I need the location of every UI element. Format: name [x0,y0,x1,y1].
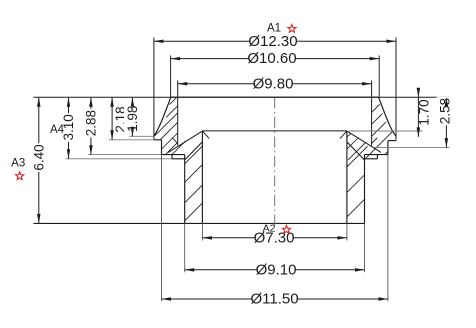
dimension O9.80 [178,75,372,94]
star A3 [16,172,24,180]
wire top reference extension line [34,96,451,98]
O10.60 right extension line [378,56,380,98]
dimension 2.18 [110,97,128,140]
svg-text:6.40: 6.40 [31,144,46,170]
dimension 1.98 [124,97,141,136]
extension line O9.10 right [364,223,366,272]
svg-text:Ø9.80: Ø9.80 [253,75,294,92]
svg-text:A1: A1 [267,22,281,34]
extension line 1.98 [129,135,154,137]
right section hatching [347,104,392,217]
left flange fillet [154,97,171,136]
star A2 [282,225,290,233]
extension line 2.58 [374,147,450,149]
svg-text:A2: A2 [263,222,276,234]
dimension O9.10 [185,261,365,280]
dimension O11.50 [162,290,388,309]
svg-text:A4: A4 [50,124,65,136]
extension line O7.30 left [201,223,203,240]
left cone inner edge [168,131,202,152]
right small step wall [376,155,378,159]
left small step wall [171,155,173,159]
label A1 [267,22,281,34]
right flange rim edge + O12.30 extension [395,38,397,141]
right step bottom [365,154,388,156]
right cone inner edge [347,131,381,152]
left cone outer edge [185,142,203,160]
dimension 6.40 [30,97,47,223]
dimension O12.30 [154,32,396,51]
extension line 1.70 [349,130,423,132]
centerline [274,98,276,231]
left step wall O11.50 [161,140,163,155]
left section hatching [154,97,202,220]
dimension O10.60 [171,49,380,68]
right counterbore wall O9.80 + extension [371,81,373,146]
svg-text:2.58: 2.58 [438,98,453,124]
label A3 [11,157,25,169]
part top face [171,96,380,98]
label A4 [50,124,65,136]
dimension 2.88 [83,97,100,154]
svg-text:2.88: 2.88 [83,110,98,136]
svg-text:Ø9.10: Ø9.10 [256,261,297,278]
right bore wall O7.30 [346,131,348,223]
wire bottom face and extension line [34,222,365,224]
svg-text:A3: A3 [11,157,25,169]
extension line O11.50 left [161,155,163,302]
O10.60 left extension line [170,56,172,98]
dimension O7.30 [202,229,347,248]
dimension 2.58 [437,97,454,148]
svg-text:Ø11.50: Ø11.50 [250,291,298,308]
left bore lip far edge [203,131,210,138]
right flange fillet [379,97,396,136]
star A1 [288,25,296,33]
right small step bottom [365,158,378,160]
svg-text:Ø12.30: Ø12.30 [248,33,297,50]
left flange bottom face [154,139,162,141]
extension line O7.30 right [346,223,348,240]
bore top edge [202,130,347,132]
extension line O11.50 right [387,155,389,302]
dimension 1.70 [416,88,431,137]
left step bottom [162,154,185,156]
right flange bottom face [388,140,396,142]
svg-text:Ø10.60: Ø10.60 [247,50,296,67]
extension line O9.10 left [184,223,186,272]
extension line 2.88 [88,154,162,156]
svg-text:1.70: 1.70 [416,99,431,125]
right tube outer wall O9.10 [364,155,366,224]
right cone outer edge [347,142,365,160]
left counterbore undercut edge [172,138,178,144]
left small step bottom [172,158,185,160]
left counterbore wall O9.80 + extension [177,81,179,146]
right bore lip far edge [340,131,347,138]
left bore wall O7.30 [201,131,203,223]
label A2 [263,222,276,234]
left tube outer wall O9.10 [184,155,186,224]
left flange rim edge + O12.30 extension [153,38,155,140]
right step wall O11.50 [387,141,389,155]
extension line 2.18 [109,139,154,141]
dimension 3.10 [60,97,77,159]
right counterbore undercut edge [372,138,378,144]
extension line 3.10 [66,158,173,160]
